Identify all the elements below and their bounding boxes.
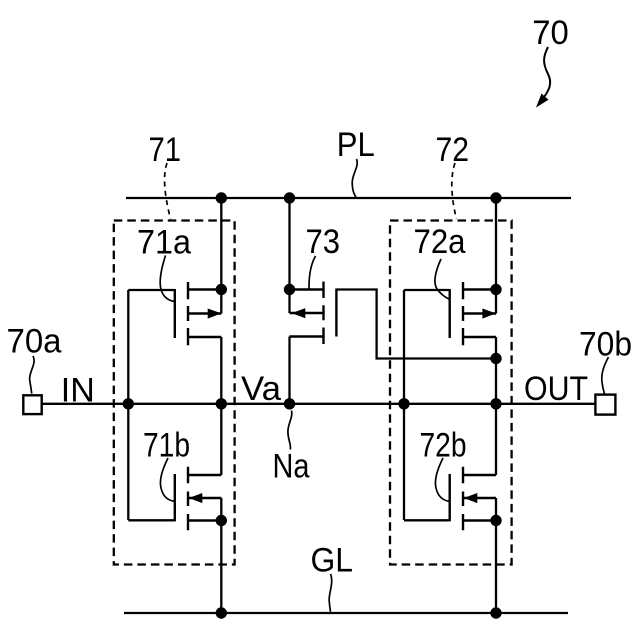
node 72b source: [490, 515, 501, 526]
72b drain: [463, 474, 496, 476]
node Va: [216, 398, 227, 409]
72b source: [463, 519, 496, 521]
label 71: [149, 131, 182, 169]
71a body line with arrow: [188, 312, 221, 314]
svg-text:70b: 70b: [579, 325, 632, 363]
leader 72a: [435, 259, 450, 300]
wire PL to 73 (x=289): [288, 198, 290, 313]
node PL-73: [284, 192, 295, 203]
terminal 70a square: [23, 395, 41, 414]
71b drain: [188, 474, 221, 476]
71b body line with arrow: [189, 497, 221, 499]
73 gate plate: [335, 289, 337, 337]
wire IN-OUT main horizontal: [42, 403, 596, 405]
transistor 72a (PMOS): [450, 282, 496, 345]
svg-text:72a: 72a: [414, 223, 467, 261]
svg-text:GL: GL: [311, 542, 354, 580]
node GL-72b: [490, 607, 501, 618]
wire 72b source to GL: [495, 498, 497, 613]
ground line GL: [124, 612, 568, 614]
svg-text:Va: Va: [241, 370, 282, 408]
wire 73 gate zigzag: [336, 290, 496, 359]
72a gate plate: [449, 289, 451, 338]
leader 70b: [602, 357, 609, 394]
node PL-72a: [490, 192, 501, 203]
leader GL: [329, 574, 332, 612]
71a gate plate: [174, 289, 176, 338]
wire 71a source to Va to 71b drain: [220, 337, 222, 475]
72a channel: [462, 282, 464, 345]
node Na: [284, 398, 295, 409]
wire PL to 72a drain (x=496): [495, 198, 497, 314]
svg-text:73: 73: [306, 223, 341, 261]
72a body line with arrow: [463, 312, 496, 314]
label 70b: [579, 325, 632, 363]
71a drain: [188, 288, 221, 290]
leader PL: [352, 159, 357, 198]
svg-text:70a: 70a: [7, 323, 63, 361]
transistor 71a (PMOS): [175, 282, 222, 345]
72a source: [463, 336, 496, 338]
leader 71b: [160, 458, 174, 502]
72a drain: [463, 288, 496, 290]
71a source: [188, 336, 221, 338]
svg-text:71b: 71b: [143, 427, 190, 465]
wire 72a source to OUT to 72b drain: [495, 337, 497, 475]
node 73 gate tie: [490, 353, 501, 364]
svg-text:70: 70: [532, 14, 569, 52]
transistor 72b (NMOS): [450, 467, 496, 531]
leader 72 (dashed): [452, 163, 457, 219]
73 source (bottom): [290, 335, 324, 337]
wire 71a gate stub: [128, 289, 175, 291]
node 71b source: [216, 515, 227, 526]
73 drain (top): [290, 288, 324, 290]
node GL-71b: [216, 607, 227, 618]
label OUT: [524, 370, 588, 408]
leader 73: [309, 256, 316, 289]
73 body line with arrow: [290, 312, 324, 314]
71b channel: [187, 467, 189, 531]
label 70: [532, 14, 569, 52]
wire PL to 71a drain (x=221): [220, 198, 222, 314]
wire 73 source down to node Na: [288, 337, 290, 404]
label 72b: [420, 427, 467, 465]
node PL-71a: [216, 192, 227, 203]
wire gate feedback left (x=128): [127, 290, 129, 520]
label 73: [306, 223, 341, 261]
dashed box 71: [114, 221, 235, 565]
label 71b: [143, 427, 190, 465]
label 71a: [137, 224, 192, 262]
72b gate plate: [449, 474, 451, 521]
svg-text:71: 71: [149, 131, 182, 169]
leader 71 (dashed): [165, 163, 171, 219]
arrow 70: [536, 47, 550, 108]
wire 71b gate stub: [128, 519, 175, 521]
node 73 top: [284, 284, 295, 295]
transistor 73 (PMOS, mirrored): [290, 282, 337, 345]
transistor 71b (NMOS): [175, 467, 222, 531]
node OUT: [490, 398, 501, 409]
svg-text:OUT: OUT: [524, 370, 588, 408]
node right gates: [398, 398, 409, 409]
73 channel: [322, 282, 324, 345]
svg-text:PL: PL: [337, 126, 375, 164]
label 72a: [414, 223, 467, 261]
leader 71a: [160, 256, 175, 302]
leader 70a: [30, 356, 34, 394]
label GL: [311, 542, 354, 580]
leader 72b: [435, 458, 449, 502]
wire 71b source to GL: [220, 498, 222, 613]
svg-text:71a: 71a: [137, 224, 192, 262]
leader Na: [288, 411, 292, 450]
node IN gate: [123, 398, 134, 409]
wire gate right (x=404): [403, 290, 405, 520]
71b gate plate: [174, 474, 176, 521]
node 72a drain: [490, 284, 501, 295]
72b channel: [462, 467, 464, 531]
71b source: [188, 519, 221, 521]
terminal 70b square: [595, 395, 615, 415]
svg-text:Na: Na: [273, 448, 311, 486]
label PL: [337, 126, 375, 164]
power line PL: [126, 197, 571, 199]
label 70a: [7, 323, 63, 361]
svg-text:72: 72: [436, 131, 470, 169]
label Va: [241, 370, 282, 408]
label IN: [61, 372, 95, 410]
label Na: [273, 448, 311, 486]
wire 72b gate stub: [404, 519, 450, 521]
72b body line with arrow: [464, 497, 496, 499]
dashed box 72: [390, 221, 512, 565]
node 71a drain: [216, 284, 227, 295]
label 72: [436, 131, 470, 169]
wire 72a gate stub: [404, 289, 450, 291]
71a channel: [187, 282, 189, 345]
